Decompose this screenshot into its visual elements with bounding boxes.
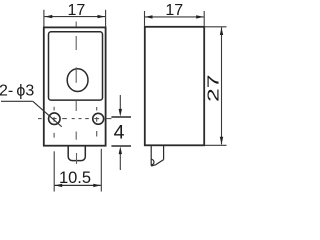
- vertical center line front view: [75, 22, 77, 165]
- dim 17 front: left arrowhead: [45, 15, 53, 18]
- dim 10.5: dimension line: [55, 184, 101, 186]
- svg-text:27: 27: [204, 74, 222, 102]
- side view top extension to 27 dim: [204, 26, 226, 28]
- svg-text:17: 17: [165, 2, 183, 19]
- dim 4: top tick line: [111, 116, 131, 118]
- side view cable semicircle: [151, 159, 154, 165]
- dim 10.5: right extension line: [100, 149, 102, 192]
- dim 17 side: left extension line: [144, 11, 146, 26]
- mounting hole right: [93, 113, 104, 124]
- dim 4: bottom tick line: [111, 145, 131, 147]
- svg-text:10.5: 10.5: [59, 169, 91, 187]
- leader diagonal through left hole: [33, 101, 62, 126]
- side view stub left edge: [150, 145, 152, 166]
- bottom tab front view: [68, 146, 85, 161]
- side view stub bottom edge: [151, 165, 156, 166]
- dim 10.5: left extension line: [53, 151, 55, 191]
- dim 4: lower leader with up arrow: [119, 153, 121, 170]
- svg-text:2- ϕ3: 2- ϕ3: [0, 82, 34, 99]
- sensing face circle: [67, 69, 88, 92]
- dim 17 front: right arrowhead: [98, 15, 106, 18]
- dim 4: upper leader with down arrow: [119, 95, 121, 111]
- side view stub right edge: [163, 145, 165, 160]
- svg-text:4: 4: [114, 122, 125, 144]
- center line right hole vertical: [96, 107, 98, 137]
- dim 17 front: left extension line: [43, 10, 45, 27]
- dim 17 front: right extension line: [105, 10, 107, 27]
- dim 17 side: right arrowhead: [196, 15, 204, 18]
- horizontal center line through holes: [38, 118, 111, 120]
- dim 17 front: dimension line: [44, 16, 105, 18]
- side view stub bottom diagonal: [156, 160, 163, 165]
- front view inner face plate: [49, 32, 103, 100]
- dim 27: bottom arrowhead: [220, 137, 223, 145]
- side view bottom extension to 27 dim: [204, 144, 226, 146]
- side view body: [145, 27, 204, 146]
- dim 27: top arrowhead: [220, 27, 223, 35]
- dim 17 side: left arrowhead: [145, 15, 153, 18]
- dim 10.5: left arrowhead: [55, 184, 63, 187]
- dim 10.5: right arrowhead: [93, 184, 101, 187]
- svg-text:17: 17: [68, 2, 86, 19]
- dim 17 side: dimension line: [145, 16, 204, 18]
- leader underline: [1, 100, 33, 102]
- front view outer body: [44, 27, 106, 145]
- dim 27: dimension line: [221, 27, 223, 144]
- center line left hole vertical: [53, 107, 55, 138]
- dim 17 side: right extension line: [203, 11, 205, 26]
- mounting hole left: [49, 113, 61, 125]
